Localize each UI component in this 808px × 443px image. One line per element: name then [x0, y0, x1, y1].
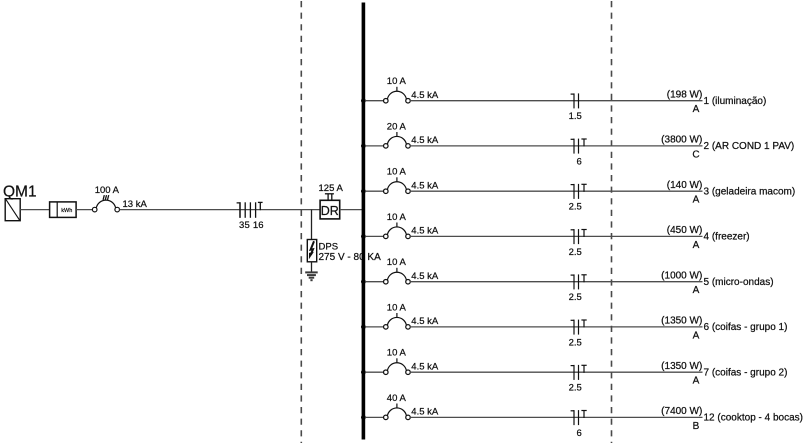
svg-text:4.5 kA: 4.5 kA [411, 181, 439, 192]
svg-text:6: 6 [577, 156, 582, 167]
wire [365, 235, 384, 237]
wire [410, 190, 702, 192]
wire [410, 371, 702, 373]
svg-text:QM1: QM1 [3, 183, 37, 200]
wire [410, 145, 702, 147]
svg-text:6: 6 [577, 428, 582, 439]
cable 2.5 circuit 5 [569, 274, 587, 303]
wire [76, 209, 92, 211]
svg-text:6 (coifas - grupo 1): 6 (coifas - grupo 1) [704, 322, 788, 333]
breaker 10 A circuit 3 [384, 167, 439, 194]
svg-text:2.5: 2.5 [569, 202, 582, 213]
circuit breaker QM 100 A / 13 kA [92, 185, 147, 212]
svg-text:(198 W): (198 W) [667, 90, 703, 101]
svg-text:(140 W): (140 W) [667, 180, 703, 191]
svg-text:A: A [693, 285, 700, 296]
cable 2.5 circuit 3 [569, 184, 587, 213]
load label circuit 7 [661, 361, 787, 387]
breaker 40 A circuit 12 [384, 393, 439, 420]
svg-text:20 A: 20 A [387, 121, 407, 132]
svg-text:275 V - 80 KA: 275 V - 80 KA [319, 252, 382, 263]
svg-text:(1000 W): (1000 W) [661, 271, 702, 282]
svg-text:A: A [693, 330, 700, 341]
cable 1.5 circuit 1 [569, 93, 582, 122]
residual device DR 125 A [319, 183, 344, 219]
breaker 10 A circuit 4 [384, 212, 439, 239]
svg-text:A: A [693, 104, 700, 115]
svg-text:DR: DR [321, 204, 339, 218]
node DPS tap [311, 210, 313, 240]
breaker 20 A circuit 2 [384, 121, 439, 148]
boundary dashed line (left) [300, 1, 302, 443]
svg-text:4.5 kA: 4.5 kA [411, 135, 439, 146]
node busbar junction circuit 4 [361, 234, 366, 239]
load label circuit 5 [661, 271, 773, 297]
wire [340, 209, 362, 211]
breaker 10 A circuit 7 [384, 348, 439, 375]
svg-text:kWh: kWh [61, 208, 72, 214]
node busbar junction circuit 2 [361, 144, 366, 149]
svg-text:40 A: 40 A [387, 393, 407, 404]
svg-text:4 (freezer): 4 (freezer) [704, 232, 750, 243]
cable 2.5 circuit 6 [569, 320, 587, 349]
svg-text:4.5 kA: 4.5 kA [411, 316, 439, 327]
busbar [362, 3, 366, 440]
svg-text:4.5 kA: 4.5 kA [411, 90, 439, 101]
svg-text:1 (iluminação): 1 (iluminação) [704, 96, 767, 107]
wire [410, 100, 702, 102]
breaker 10 A circuit 5 [384, 257, 439, 284]
svg-text:10 A: 10 A [387, 212, 407, 223]
wire [410, 326, 702, 328]
load label circuit 3 [667, 180, 795, 206]
cable 35 16 [237, 202, 264, 231]
svg-text:5 (micro-ondas): 5 (micro-ondas) [704, 277, 774, 288]
wire [20, 209, 49, 211]
svg-text:4.5 kA: 4.5 kA [411, 271, 439, 282]
svg-text:(3800 W): (3800 W) [661, 135, 702, 146]
node busbar junction circuit 1 [361, 98, 366, 103]
svg-text:4.5 kA: 4.5 kA [411, 226, 439, 237]
wire [365, 371, 384, 373]
load label circuit 12 [661, 406, 803, 432]
svg-text:(7400 W): (7400 W) [661, 406, 702, 417]
node busbar junction circuit 6 [361, 325, 366, 330]
wire [410, 281, 702, 283]
svg-text:B: B [693, 421, 700, 432]
breaker 10 A circuit 1 [384, 76, 439, 103]
cable 6 circuit 2 [571, 139, 587, 168]
svg-text:A: A [693, 376, 700, 387]
cable 2.5 circuit 7 [569, 365, 587, 394]
wire [365, 416, 384, 418]
wire [365, 281, 384, 283]
svg-text:100 A: 100 A [95, 185, 120, 196]
svg-text:7 (coifas - grupo 2): 7 (coifas - grupo 2) [704, 368, 788, 379]
svg-text:(1350 W): (1350 W) [661, 361, 702, 372]
ground [305, 272, 318, 280]
svg-text:10 A: 10 A [387, 167, 407, 178]
surge protector DPS [307, 240, 381, 264]
svg-text:2 (AR COND 1 PAV): 2 (AR COND 1 PAV) [704, 141, 795, 152]
cable 6 circuit 12 [571, 410, 587, 439]
node busbar junction circuit 3 [361, 189, 366, 194]
wire [410, 235, 702, 237]
breaker 10 A circuit 6 [384, 302, 439, 329]
svg-text:3 (geladeira macom): 3 (geladeira macom) [704, 187, 796, 198]
boundary dashed line (right) [611, 1, 613, 443]
svg-text:10 A: 10 A [387, 76, 407, 87]
svg-text:2.5: 2.5 [569, 292, 582, 303]
load label circuit 1 [667, 90, 767, 116]
svg-text:A: A [693, 240, 700, 251]
wire [311, 262, 313, 272]
svg-text:2.5: 2.5 [569, 383, 582, 394]
svg-text:35 16: 35 16 [239, 220, 264, 231]
wire [365, 190, 384, 192]
svg-text:125 A: 125 A [319, 183, 344, 194]
svg-text:10 A: 10 A [387, 348, 407, 359]
node busbar junction circuit 7 [361, 370, 366, 375]
svg-text:4.5 kA: 4.5 kA [411, 362, 439, 373]
wire [120, 209, 321, 211]
svg-text:1.5: 1.5 [569, 111, 582, 122]
svg-text:12 (cooktop - 4 bocas): 12 (cooktop - 4 bocas) [704, 413, 804, 424]
svg-text:2.5: 2.5 [569, 247, 582, 258]
wire [365, 145, 384, 147]
svg-text:DPS: DPS [319, 241, 339, 252]
load label circuit 6 [661, 316, 787, 342]
svg-text:(450 W): (450 W) [667, 225, 703, 236]
load label circuit 2 [661, 135, 794, 161]
svg-text:13 kA: 13 kA [123, 199, 148, 210]
svg-text:C: C [692, 149, 699, 160]
svg-text:10 A: 10 A [387, 302, 407, 313]
node busbar junction circuit 5 [361, 279, 366, 284]
svg-text:2.5: 2.5 [569, 337, 582, 348]
wire [365, 326, 384, 328]
svg-text:(1350 W): (1350 W) [661, 316, 702, 327]
disconnect QM1 [3, 183, 37, 220]
svg-text:4.5 kA: 4.5 kA [411, 407, 439, 418]
svg-text:A: A [693, 195, 700, 206]
load label circuit 4 [667, 225, 750, 251]
node busbar junction circuit 12 [361, 415, 366, 420]
wire [365, 100, 384, 102]
cable 2.5 circuit 4 [569, 229, 587, 258]
wire [410, 416, 702, 418]
svg-text:10 A: 10 A [387, 257, 407, 268]
energy meter kWh [50, 202, 77, 218]
